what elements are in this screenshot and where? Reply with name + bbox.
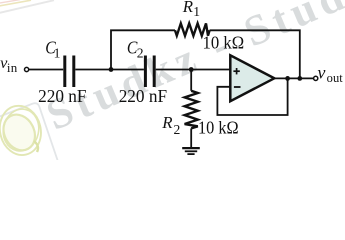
resistor R2 xyxy=(185,91,198,129)
value 220 nF (C1) xyxy=(38,86,86,106)
wire node A up to R1 branch xyxy=(111,30,175,69)
svg-text:out: out xyxy=(327,71,344,85)
svg-text:2: 2 xyxy=(137,46,144,61)
svg-text:10 kΩ: 10 kΩ xyxy=(203,32,245,52)
label C1 xyxy=(45,38,60,61)
svg-text:1: 1 xyxy=(193,4,200,19)
svg-text:1: 1 xyxy=(54,45,61,60)
svg-text:R: R xyxy=(182,0,193,16)
svg-text:2: 2 xyxy=(174,122,181,137)
capacitor C2 xyxy=(145,56,154,88)
node B junction dot xyxy=(189,67,194,72)
svg-text:10 kΩ: 10 kΩ xyxy=(198,118,239,138)
wire C1 to C2 xyxy=(75,69,144,71)
value 220 nF (C2) xyxy=(119,86,167,106)
value 10 kOhm (R1) xyxy=(203,32,245,52)
op-amp U1 xyxy=(230,55,274,101)
label R2 xyxy=(161,113,180,137)
wire feedback loop minus input xyxy=(217,78,287,115)
node D junction dot (R1 tap) xyxy=(297,76,302,81)
label vout xyxy=(318,63,344,85)
label vin xyxy=(0,53,18,75)
wire vin to C1 xyxy=(29,69,63,71)
label R1 xyxy=(182,0,200,19)
wire op-amp output xyxy=(274,77,313,79)
svg-text:v: v xyxy=(318,63,326,83)
op-amp minus pin mark xyxy=(234,86,241,88)
label C2 xyxy=(127,38,144,61)
capacitor C1 xyxy=(65,56,74,88)
ground xyxy=(182,148,200,154)
wire R1 to output node xyxy=(210,30,300,78)
node C junction dot (feedback) xyxy=(285,76,290,81)
svg-text:220 nF: 220 nF xyxy=(38,86,86,106)
background watermark (decorative) xyxy=(0,0,345,161)
value 10 kOhm (R2) xyxy=(198,118,239,138)
op-amp plus pin mark xyxy=(233,68,239,74)
resistor R1 xyxy=(175,23,210,35)
svg-text:220 nF: 220 nF xyxy=(119,86,167,106)
svg-text:R: R xyxy=(161,113,172,132)
wire node B down to R2 xyxy=(190,70,192,91)
wire C2 to op-amp + input xyxy=(156,69,231,71)
node A junction dot xyxy=(109,67,114,72)
node vout terminal xyxy=(314,76,318,80)
svg-text:in: in xyxy=(7,60,18,75)
node vin terminal xyxy=(25,67,29,71)
wire R2 to ground xyxy=(190,128,192,147)
